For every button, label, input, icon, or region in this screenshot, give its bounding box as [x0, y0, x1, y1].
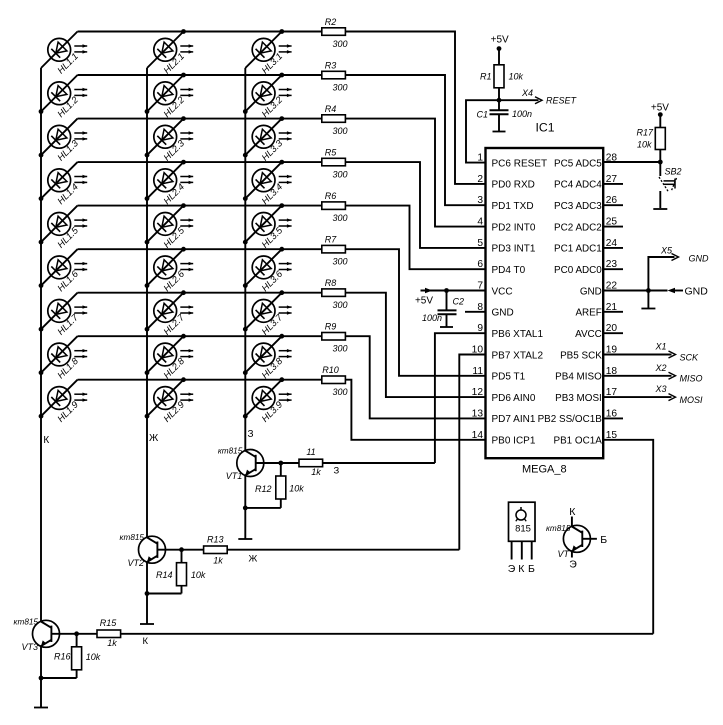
LED HL1.2 — [41, 75, 87, 119]
wire node RESET to pin 1 — [466, 100, 499, 162]
svg-text:R4: R4 — [325, 104, 337, 114]
junction bus 2 row 9 — [145, 414, 150, 419]
junction VT3 emitter / R16 — [39, 676, 44, 681]
wire VT2 emitter — [146, 562, 148, 624]
junction bus 1 row 2 — [39, 109, 44, 114]
svg-text:X2: X2 — [654, 363, 666, 373]
svg-text:R16: R16 — [54, 652, 71, 662]
LED HL3.6 — [245, 249, 291, 293]
wire pin 9 — [435, 333, 486, 463]
svg-text:VT: VT — [557, 549, 570, 559]
wire row 8 — [78, 335, 322, 337]
pin 21 stub — [603, 311, 623, 313]
junction bus 3 row 6 — [243, 283, 248, 288]
LED HL1.8 — [41, 336, 87, 380]
resistor R3 — [322, 61, 348, 93]
svg-text:1k: 1k — [311, 467, 321, 477]
svg-text:C2: C2 — [453, 297, 465, 307]
connector X3 MOSI — [603, 384, 703, 405]
svg-text:PB1 OC1A: PB1 OC1A — [553, 436, 602, 447]
svg-text:300: 300 — [332, 344, 347, 354]
svg-text:R2: R2 — [325, 17, 337, 27]
svg-text:PD5 T1: PD5 T1 — [492, 372, 526, 383]
wire R1 to node RESET — [498, 88, 500, 100]
svg-text:Ж: Ж — [249, 553, 258, 564]
resistor R17 — [636, 128, 665, 150]
LED HL2.7 — [147, 293, 193, 337]
svg-text:К: К — [518, 563, 525, 575]
junction VT2 emitter / R14 — [145, 591, 150, 596]
wire row 6 to pin 11 — [345, 249, 485, 376]
junction bus 2 row 4 — [145, 196, 150, 201]
junction bus 3 row 4 — [243, 196, 248, 201]
svg-text:AVCC: AVCC — [575, 329, 602, 340]
junction row 3 col 3 — [279, 116, 284, 121]
svg-text:100n: 100n — [512, 109, 532, 119]
wire VT1 base to R11 — [281, 462, 299, 464]
junction row 7 col 2 — [181, 290, 186, 295]
svg-text:+5V: +5V — [415, 296, 433, 307]
svg-text:PD0 RXD: PD0 RXD — [492, 180, 535, 191]
svg-text:R17: R17 — [636, 128, 654, 138]
svg-text:R10: R10 — [322, 365, 339, 375]
wire VT3 base to R15 — [77, 633, 97, 635]
svg-text:R1: R1 — [480, 72, 492, 82]
op-amp n/a IC1 box (MEGA_8) — [486, 148, 604, 458]
junction row 6 col 3 — [279, 247, 284, 252]
junction bus 2 row 5 — [145, 240, 150, 245]
svg-text:кт815: кт815 — [546, 524, 571, 533]
LED HL3.1 — [245, 32, 291, 76]
svg-text:PD4 T0: PD4 T0 — [492, 265, 526, 276]
transistor VT1 — [218, 447, 281, 482]
transistor VT2 — [120, 533, 183, 568]
wire row 4 — [78, 161, 322, 163]
resistor R4 — [322, 104, 348, 136]
svg-text:X3: X3 — [654, 384, 666, 394]
pin 16 stub — [603, 417, 623, 419]
wire row 7 — [78, 292, 322, 294]
svg-text:11: 11 — [472, 366, 483, 377]
junction node RESET — [497, 98, 502, 103]
LED HL2.3 — [147, 119, 193, 163]
svg-text:кт815: кт815 — [14, 617, 39, 626]
svg-text:Ж: Ж — [149, 433, 159, 444]
svg-text:4: 4 — [477, 217, 483, 228]
wire row 9 to pin 14 — [345, 380, 485, 440]
wire column bus 3 (Z) — [244, 68, 246, 451]
svg-text:Б: Б — [600, 534, 607, 546]
junction VT3 base — [74, 631, 79, 636]
svg-text:PC2 ADC2: PC2 ADC2 — [554, 222, 602, 233]
svg-text:SCK: SCK — [680, 352, 700, 362]
wire VCC to pin 7 — [447, 290, 486, 292]
svg-text:X1: X1 — [654, 342, 666, 352]
LED HL3.7 — [245, 293, 291, 337]
svg-text:R3: R3 — [325, 61, 337, 71]
svg-text:SB2: SB2 — [665, 167, 682, 177]
LED HL1.9 — [41, 380, 87, 424]
svg-text:R6: R6 — [325, 191, 337, 201]
LED HL2.4 — [147, 162, 193, 206]
svg-text:VT1: VT1 — [226, 471, 243, 481]
junction bus 1 row 4 — [39, 196, 44, 201]
svg-text:PC0 ADC0: PC0 ADC0 — [554, 265, 602, 276]
junction VT1 emitter / R12 — [243, 506, 248, 511]
resistor R15 — [97, 618, 121, 648]
svg-text:300: 300 — [332, 126, 347, 136]
svg-text:R9: R9 — [325, 322, 337, 332]
svg-text:X4: X4 — [521, 88, 533, 98]
connector X1 SCK — [603, 342, 699, 363]
resistor R13 — [204, 535, 228, 566]
svg-text:10k: 10k — [637, 140, 652, 150]
junction bus 3 row 7 — [243, 327, 248, 332]
svg-text:R13: R13 — [207, 535, 224, 545]
ground (VT1) — [238, 538, 252, 540]
wire GND node down — [647, 291, 649, 309]
junction bus 3 row 3 — [243, 153, 248, 158]
junction row 4 col 3 — [279, 160, 284, 165]
junction row 5 col 2 — [181, 203, 186, 208]
svg-text:Б: Б — [528, 563, 535, 575]
pin 20 stub — [603, 332, 623, 334]
LED HL3.8 — [245, 336, 291, 380]
svg-text:300: 300 — [332, 300, 347, 310]
svg-text:R15: R15 — [100, 618, 118, 628]
junction GND node — [646, 288, 651, 293]
resistor R7 — [322, 235, 348, 267]
junction bus 1 row 8 — [39, 370, 44, 375]
junction row 4 col 2 — [181, 160, 186, 165]
LED HL1.1 — [41, 32, 87, 76]
svg-text:PD1 TXD: PD1 TXD — [492, 201, 534, 212]
wire row 5 to pin 6 — [345, 206, 485, 270]
svg-text:12: 12 — [472, 387, 484, 398]
LED HL1.5 — [41, 206, 87, 250]
resistor R5 — [322, 148, 348, 180]
svg-text:PD3 INT1: PD3 INT1 — [492, 244, 536, 255]
LED HL1.6 — [41, 249, 87, 293]
wire row 6 — [78, 248, 322, 250]
svg-text:300: 300 — [332, 39, 347, 49]
wire row 5 — [78, 205, 322, 207]
junction row 8 col 2 — [181, 334, 186, 339]
wire row 3 to pin 4 — [345, 119, 485, 227]
svg-text:300: 300 — [332, 82, 347, 92]
LED HL3.4 — [245, 162, 291, 206]
svg-text:PB0 ICP1: PB0 ICP1 — [492, 436, 536, 447]
resistor R9 — [322, 322, 348, 354]
svg-text:3: 3 — [477, 195, 483, 206]
wire row 2 — [78, 74, 322, 76]
svg-text:R8: R8 — [325, 278, 337, 288]
resistor R16 — [41, 634, 101, 678]
LED HL3.9 — [245, 380, 291, 424]
junction VT2 base — [179, 547, 184, 552]
resistor R1 — [480, 65, 524, 88]
capacitor C2 — [422, 291, 464, 327]
junction row 9 col 2 — [181, 377, 186, 382]
pin 25 stub — [603, 226, 623, 228]
svg-text:300: 300 — [332, 257, 347, 267]
transistor VT legend — [546, 506, 607, 571]
svg-text:GND: GND — [580, 286, 602, 297]
svg-text:PB3 MOSI: PB3 MOSI — [555, 393, 602, 404]
svg-text:300: 300 — [332, 213, 347, 223]
wire VT3 emitter — [40, 646, 42, 707]
resistor R14 — [147, 550, 206, 594]
junction bus 1 row 3 — [39, 153, 44, 158]
svg-text:2: 2 — [477, 174, 483, 185]
junction VT1 base — [278, 461, 283, 466]
junction bus 1 row 7 — [39, 327, 44, 332]
svg-text:100n: 100n — [422, 313, 442, 323]
package KT815 outline — [508, 502, 535, 575]
junction pin 28 / SB2 — [658, 160, 663, 165]
LED HL2.1 — [147, 32, 193, 76]
wire column bus 2 (Zh) — [146, 68, 148, 537]
LED HL1.4 — [41, 162, 87, 206]
LED HL2.5 — [147, 206, 193, 250]
wire VT1 emitter — [244, 475, 246, 538]
svg-text:AREF: AREF — [575, 308, 601, 319]
ground (C1) — [493, 131, 506, 133]
wire row 1 to pin 2 — [345, 32, 485, 184]
svg-text:PC4 ADC4: PC4 ADC4 — [554, 180, 602, 191]
junction bus 3 row 9 — [243, 414, 248, 419]
junction row 1 col 2 — [181, 29, 186, 34]
resistor R11 — [299, 447, 323, 477]
svg-text:GND: GND — [689, 254, 710, 264]
wire VT2 base to R13 — [182, 549, 204, 551]
svg-text:10k: 10k — [191, 570, 206, 580]
pin 24 stub — [603, 247, 623, 249]
svg-text:R14: R14 — [156, 570, 173, 580]
pin 26 stub — [603, 204, 623, 206]
wire pin 8 stub — [465, 311, 486, 313]
junction row 9 col 3 — [279, 377, 284, 382]
svg-text:RESET: RESET — [546, 96, 578, 106]
svg-text:PC5 ADC5: PC5 ADC5 — [554, 158, 602, 169]
svg-text:10k: 10k — [289, 484, 304, 494]
junction VCC — [444, 288, 449, 293]
svg-text:PC1 ADC1: PC1 ADC1 — [554, 244, 602, 255]
junction bus 2 row 2 — [145, 109, 150, 114]
wire row 3 — [78, 118, 322, 120]
LED HL3.5 — [245, 206, 291, 250]
svg-text:PD6 AIN0: PD6 AIN0 — [492, 393, 536, 404]
junction row 2 col 2 — [181, 73, 186, 78]
junction row 3 col 2 — [181, 116, 186, 121]
svg-text:1k: 1k — [213, 556, 223, 566]
svg-text:кт815: кт815 — [218, 447, 243, 456]
svg-text:VT3: VT3 — [21, 642, 38, 652]
svg-text:10k: 10k — [509, 72, 524, 82]
wire R15 to pin 15 — [121, 633, 654, 635]
svg-text:GND: GND — [492, 308, 514, 319]
svg-text:PC3 ADC3: PC3 ADC3 — [554, 201, 602, 212]
connector X4 RESET — [499, 88, 578, 106]
svg-text:PB2 SS/OC1B: PB2 SS/OC1B — [538, 414, 603, 425]
svg-text:+5V: +5V — [651, 103, 669, 114]
junction bus 2 row 3 — [145, 153, 150, 158]
wire row 4 to pin 5 — [345, 162, 485, 248]
wire pin 15 — [603, 440, 653, 634]
svg-text:R5: R5 — [325, 148, 337, 158]
svg-text:300: 300 — [332, 170, 347, 180]
svg-text:VCC: VCC — [492, 286, 513, 297]
junction row 8 col 3 — [279, 334, 284, 339]
svg-text:GND: GND — [685, 286, 709, 298]
junction bus 1 row 5 — [39, 240, 44, 245]
svg-text:1k: 1k — [107, 638, 117, 648]
svg-text:К: К — [143, 636, 149, 647]
svg-text:MISO: MISO — [680, 374, 703, 384]
junction bus 3 row 8 — [243, 370, 248, 375]
junction bus 1 row 9 — [39, 414, 44, 419]
LED HL2.9 — [147, 380, 193, 424]
wire R11 to pin 9 — [323, 462, 435, 464]
junction bus 2 row 8 — [145, 370, 150, 375]
svg-text:PD7 AIN1: PD7 AIN1 — [492, 414, 536, 425]
svg-text:К: К — [569, 506, 576, 518]
svg-text:PC6 RESET: PC6 RESET — [492, 158, 548, 169]
junction bus 1 row 6 — [39, 283, 44, 288]
ground (VT2) — [140, 623, 154, 625]
svg-text:PB5 SCK: PB5 SCK — [560, 350, 602, 361]
ground (SB2) — [653, 208, 667, 210]
svg-text:PB4 MISO: PB4 MISO — [555, 372, 602, 383]
power +5V input (VCC) — [415, 288, 447, 307]
svg-text:PB6 XTAL1: PB6 XTAL1 — [492, 329, 544, 340]
junction bus 2 row 7 — [145, 327, 150, 332]
svg-text:MEGA_8: MEGA_8 — [522, 464, 567, 476]
svg-text:Э: Э — [508, 563, 516, 575]
wire +5V to R17 — [659, 115, 661, 128]
svg-text:кт815: кт815 — [120, 533, 145, 542]
svg-text:MOSI: MOSI — [680, 395, 704, 405]
LED HL3.3 — [245, 119, 291, 163]
svg-text:6: 6 — [477, 259, 483, 270]
power +5V (SB2) — [651, 103, 669, 118]
junction row 7 col 3 — [279, 290, 284, 295]
svg-text:R12: R12 — [255, 484, 272, 494]
resistor R10 — [322, 365, 348, 397]
capacitor C1 — [476, 100, 532, 131]
LED HL2.8 — [147, 336, 193, 380]
junction bus 2 row 6 — [145, 283, 150, 288]
resistor R8 — [322, 278, 348, 310]
wire R13 to pin 10 — [227, 549, 459, 551]
LED HL2.2 — [147, 75, 193, 119]
svg-text:Э: Э — [569, 559, 577, 571]
wire column bus 1 (K) — [40, 68, 42, 622]
wire pin 22 — [603, 290, 648, 292]
LED HL1.3 — [41, 119, 87, 163]
svg-text:300: 300 — [332, 387, 347, 397]
svg-text:VT2: VT2 — [127, 558, 144, 568]
wire pin 10 — [459, 355, 485, 550]
junction row 6 col 2 — [181, 247, 186, 252]
connector X5 GND — [648, 246, 709, 291]
resistor R12 — [245, 463, 304, 508]
svg-text:X5: X5 — [660, 246, 673, 256]
resistor R2 — [322, 17, 348, 49]
svg-text:10k: 10k — [86, 652, 101, 662]
svg-text:C1: C1 — [476, 110, 488, 120]
junction bus 3 row 5 — [243, 240, 248, 245]
switch SB2 — [659, 162, 682, 208]
junction row 1 col 3 — [279, 29, 284, 34]
ground (C2) — [440, 326, 453, 328]
wire row 1 — [78, 31, 322, 33]
svg-text:13: 13 — [472, 408, 484, 419]
svg-text:З: З — [334, 466, 340, 477]
svg-text:PB7 XTAL2: PB7 XTAL2 — [492, 350, 544, 361]
svg-text:R7: R7 — [325, 235, 337, 245]
power +5V (reset) — [491, 35, 509, 51]
svg-text:IC1: IC1 — [536, 121, 555, 135]
svg-text:З: З — [248, 429, 254, 440]
pin 27 stub — [603, 183, 623, 185]
wire row 9 — [78, 379, 322, 381]
transistor VT3 — [14, 617, 77, 652]
svg-text:14: 14 — [472, 430, 484, 441]
junction row 5 col 3 — [279, 203, 284, 208]
LED HL1.7 — [41, 293, 87, 337]
svg-text:815: 815 — [515, 524, 531, 535]
wire row 8 to pin 13 — [345, 336, 485, 418]
svg-text:К: К — [43, 435, 49, 446]
wire row 2 to pin 3 — [345, 75, 485, 205]
LED HL2.6 — [147, 249, 193, 293]
ground (VT3) — [34, 707, 48, 709]
svg-text:5: 5 — [477, 238, 483, 249]
resistor R6 — [322, 191, 348, 223]
pin 23 stub — [603, 268, 623, 270]
wire +5V to R1 — [498, 49, 500, 65]
wire row 7 to pin 12 — [345, 293, 485, 397]
junction bus 3 row 2 — [243, 109, 248, 114]
wire pin 28 — [603, 161, 660, 163]
svg-text:PD2 INT0: PD2 INT0 — [492, 222, 536, 233]
GND input arrow — [648, 286, 708, 298]
svg-text:+5V: +5V — [491, 35, 509, 46]
LED HL3.2 — [245, 75, 291, 119]
ground (pin 22) — [641, 308, 655, 310]
wire R17 to pin 28 — [659, 150, 661, 163]
junction row 2 col 3 — [279, 73, 284, 78]
connector X2 MISO — [603, 363, 702, 384]
svg-text:11: 11 — [306, 447, 315, 457]
